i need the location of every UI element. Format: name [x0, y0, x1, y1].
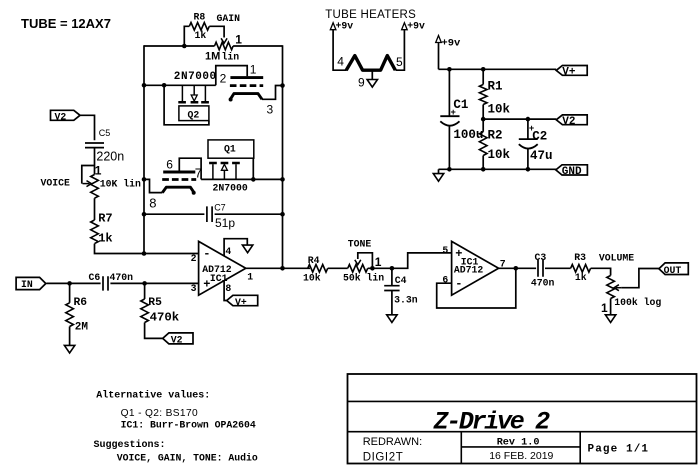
- label plus U1A: [203, 278, 210, 292]
- svg-text:R5: R5: [148, 297, 162, 309]
- potentiometer VOLUME: [607, 269, 659, 299]
- title block vertical 1: [460, 432, 462, 464]
- resistor R7: [91, 220, 99, 244]
- title block divider 1: [348, 400, 697, 402]
- label 220n: [96, 150, 124, 164]
- svg-text:TONE: TONE: [348, 239, 372, 250]
- label C5: [99, 128, 111, 138]
- text Rev 1.0: [497, 438, 540, 449]
- svg-text:1: 1: [95, 164, 102, 178]
- node junction R6 tap: [67, 281, 72, 286]
- svg-text:470k: 470k: [150, 311, 180, 325]
- label minus U1B: [455, 277, 462, 291]
- label plus C2: [529, 124, 534, 134]
- label 470n C6: [110, 272, 134, 283]
- svg-text:C4: C4: [395, 275, 407, 286]
- wire heater right: [396, 30, 405, 70]
- node junction lower bus right: [280, 177, 285, 182]
- svg-text:AD712: AD712: [454, 265, 484, 276]
- svg-text:50k lin: 50k lin: [343, 273, 384, 284]
- wire top rail segment: [144, 45, 215, 47]
- node junction TONE term1: [370, 266, 375, 271]
- svg-text:IN: IN: [21, 279, 33, 290]
- svg-text:1k: 1k: [98, 231, 112, 245]
- label Q1: [224, 144, 236, 155]
- svg-text:51p: 51p: [215, 216, 235, 230]
- label +9v supply: [441, 38, 461, 50]
- label 1k R3: [575, 272, 587, 283]
- label R4: [308, 255, 320, 266]
- label pin 4 U1A: [225, 246, 231, 257]
- label plus C1: [451, 108, 456, 118]
- svg-text:1k: 1k: [195, 30, 207, 41]
- power +9v arrow left: [330, 23, 336, 30]
- ground VOLUME: [605, 315, 615, 323]
- wire VOLUME to gnd: [610, 299, 612, 315]
- label 50k lin: [343, 273, 384, 284]
- svg-text:3: 3: [191, 283, 197, 294]
- wire pin4 to gnd: [224, 239, 247, 256]
- wire output U1A: [246, 267, 310, 269]
- wire top rail right segment: [233, 45, 282, 47]
- label IC1 U1A: [210, 273, 228, 284]
- label 100u: [453, 128, 483, 142]
- title block divider 2: [348, 431, 697, 433]
- label pin 1 U1A: [247, 272, 253, 283]
- text alternative values: [96, 390, 210, 402]
- svg-text:R3: R3: [574, 252, 586, 263]
- capacitor C6: [103, 276, 108, 290]
- flag V2 top: [51, 110, 81, 120]
- svg-text:3: 3: [267, 102, 274, 116]
- svg-text:1: 1: [247, 272, 253, 283]
- tube V1b plate lead: [179, 158, 201, 179]
- svg-text:7: 7: [195, 166, 202, 181]
- label GND rail: [562, 166, 582, 178]
- wire C7 left: [144, 213, 204, 215]
- label V+ rail: [562, 67, 576, 79]
- svg-text:2N7000: 2N7000: [174, 71, 217, 83]
- text suggestions: [94, 439, 166, 451]
- svg-text:470n: 470n: [531, 277, 555, 288]
- svg-text:1: 1: [235, 33, 242, 47]
- label V2 top: [55, 112, 67, 123]
- wire Q1 drain wrap: [252, 158, 254, 179]
- text REDRAWN: [363, 436, 422, 448]
- capacitor C2: [519, 119, 538, 169]
- ground C4: [387, 315, 397, 323]
- transistor Q2 bars: [178, 101, 209, 104]
- resistor R1: [479, 69, 487, 119]
- svg-text:5: 5: [396, 55, 403, 69]
- label R3: [574, 252, 586, 263]
- wire pin2: [144, 253, 199, 255]
- label pin 5 heater: [396, 55, 403, 69]
- svg-text:100u: 100u: [453, 128, 483, 142]
- label 100k log: [614, 297, 661, 308]
- svg-text:6: 6: [166, 157, 173, 171]
- svg-text:C7: C7: [214, 203, 226, 213]
- wire right bus: [282, 45, 284, 268]
- label pin 8 V1b: [149, 196, 156, 211]
- transistor Q1 arrow: [221, 164, 227, 170]
- resistor R2: [479, 119, 487, 169]
- wire pin8 to V+: [224, 281, 227, 301]
- label 47u: [530, 149, 553, 163]
- label AD712 U1A: [202, 264, 232, 275]
- svg-text:IC1: Burr-Brown OPA2604: IC1: Burr-Brown OPA2604: [121, 420, 256, 431]
- svg-text:1: 1: [250, 63, 257, 77]
- svg-text:8: 8: [225, 283, 231, 294]
- ground R6: [64, 345, 74, 353]
- label pin 2 U1A: [191, 253, 197, 264]
- svg-text:lin: lin: [222, 51, 240, 62]
- svg-text:3.3n: 3.3n: [394, 295, 418, 306]
- wire lower net: [201, 178, 282, 180]
- wire V2 to C5: [80, 115, 95, 140]
- ground supply: [433, 174, 443, 182]
- svg-text:TUBE = 12AX7: TUBE = 12AX7: [21, 16, 111, 31]
- svg-text:4: 4: [225, 246, 231, 257]
- label GAIN: [217, 13, 241, 24]
- text Page 1/1: [588, 443, 650, 455]
- wire C3 to R3: [545, 267, 571, 269]
- svg-text:OUT: OUT: [664, 265, 682, 276]
- node junction left bus lower: [142, 177, 147, 182]
- label pin 7 V1b: [195, 166, 202, 181]
- svg-text:REDRAWN:: REDRAWN:: [363, 436, 422, 448]
- tube V1a plate lead: [216, 66, 247, 86]
- label R8: [194, 12, 206, 23]
- tube V1a plate: [230, 76, 263, 79]
- resistor R5: [141, 283, 163, 338]
- op-amp U1A: [199, 241, 246, 295]
- label V2 rail: [562, 116, 575, 128]
- svg-text:V2: V2: [55, 112, 67, 123]
- svg-text:2M: 2M: [75, 322, 89, 334]
- label 10k R1: [488, 103, 511, 117]
- svg-text:-: -: [455, 277, 462, 291]
- label pin 3 V1a: [267, 102, 274, 116]
- flag OUT: [659, 263, 688, 275]
- svg-text:+9v: +9v: [336, 21, 354, 32]
- svg-text:TUBE HEATERS: TUBE HEATERS: [325, 9, 416, 21]
- label pin 7 U1B: [500, 259, 506, 270]
- label R1: [488, 80, 503, 94]
- label R5: [148, 297, 162, 309]
- text Z-Drive 2: [433, 408, 551, 437]
- tube V1b cathode: [162, 187, 195, 195]
- svg-text:100k log: 100k log: [614, 297, 661, 308]
- label AD712 U1B: [454, 265, 484, 276]
- label TONE: [348, 239, 372, 250]
- node junction cathode bus: [280, 83, 285, 88]
- svg-text:C3: C3: [535, 252, 547, 263]
- label R6: [74, 297, 88, 309]
- svg-text:Q1 - Q2: BS170: Q1 - Q2: BS170: [121, 408, 198, 419]
- label C1: [453, 98, 468, 112]
- label C2: [532, 130, 547, 144]
- svg-text:Suggestions:: Suggestions:: [94, 439, 166, 451]
- node junction left bus upper: [142, 83, 147, 88]
- label terminal 1 VOICE: [95, 164, 102, 178]
- wire TONE to riser: [368, 253, 452, 268]
- node junction C7 left: [142, 212, 147, 217]
- label OUT: [664, 265, 682, 276]
- svg-text:1: 1: [375, 255, 382, 269]
- node junction R2 bottom: [481, 167, 486, 172]
- capacitor C5: [85, 143, 104, 148]
- wire supply drop: [438, 43, 440, 70]
- label pin 4 heater: [337, 55, 344, 69]
- svg-text:10k: 10k: [488, 103, 511, 117]
- label +9v right: [407, 21, 425, 32]
- label pin 3 U1A: [191, 283, 197, 294]
- flag V2 rail: [556, 115, 587, 125]
- svg-text:10k: 10k: [303, 273, 321, 284]
- label pin 2 V1a: [220, 72, 227, 86]
- transistor Q2 arrow: [191, 95, 197, 101]
- capacitor C4: [384, 268, 399, 315]
- svg-text:GAIN: GAIN: [217, 13, 241, 24]
- svg-text:+9v: +9v: [407, 21, 425, 32]
- wire cathode jog lower: [144, 179, 162, 192]
- transistor Q1 bars: [209, 162, 240, 165]
- node junction C2 bottom: [526, 167, 531, 172]
- text DIGI2T: [363, 451, 404, 463]
- label R7: [98, 211, 112, 225]
- svg-text:R1: R1: [488, 80, 503, 94]
- node junction C2 top: [526, 117, 531, 122]
- tube V1a grid: [230, 84, 263, 87]
- wire grid bus upper: [144, 84, 216, 86]
- node junction C4 tap: [390, 266, 395, 271]
- flag V2 R5: [163, 333, 193, 344]
- flag V+ pin8: [227, 295, 258, 305]
- flag V+ rail: [556, 66, 587, 76]
- svg-text:Q1: Q1: [224, 144, 236, 155]
- transistor Q2 leads: [182, 85, 205, 101]
- svg-text:16 FEB. 2019: 16 FEB. 2019: [489, 450, 553, 462]
- flag IN: [16, 277, 46, 289]
- svg-text:9: 9: [358, 76, 365, 90]
- wire pin6 feedback: [437, 268, 516, 308]
- svg-text:2: 2: [191, 253, 197, 264]
- label IC1 U1B: [461, 257, 479, 268]
- label 1M: [205, 50, 220, 62]
- svg-text:220n: 220n: [96, 150, 124, 164]
- wire Q2 source wrap: [164, 85, 209, 125]
- label C7: [214, 203, 226, 213]
- wire V+ rail: [439, 68, 557, 70]
- svg-text:1M: 1M: [205, 50, 220, 62]
- node junction R5 tap: [142, 281, 147, 286]
- label pin 8 U1A: [225, 283, 231, 294]
- svg-text:8: 8: [149, 196, 156, 211]
- svg-text:VOLUME: VOLUME: [599, 252, 634, 263]
- potentiometer VOICE: [82, 166, 99, 199]
- transistor Q1 box: [208, 140, 254, 158]
- label V2 R5: [171, 335, 183, 346]
- label 3.3n: [394, 295, 418, 306]
- capacitor C7: [207, 206, 212, 222]
- svg-text:47u: 47u: [530, 149, 553, 163]
- wire output U1B: [499, 267, 536, 269]
- power +9v arrow supply: [436, 36, 442, 43]
- heater filament: [346, 56, 395, 71]
- power +9v arrow right: [402, 23, 408, 30]
- potentiometer TONE: [348, 253, 373, 272]
- node junction U1B out: [514, 266, 519, 271]
- node junction V2 rail: [481, 117, 486, 122]
- svg-text:V+: V+: [235, 297, 247, 308]
- svg-text:R2: R2: [488, 129, 503, 143]
- svg-text:2N7000: 2N7000: [213, 182, 248, 193]
- label Q2: [188, 110, 200, 121]
- label 470n C3: [531, 277, 555, 288]
- label pin 5 U1B: [442, 245, 448, 256]
- node junction pin2: [142, 251, 147, 256]
- svg-text:1: 1: [601, 301, 608, 315]
- wire C5 to pot: [94, 148, 96, 175]
- svg-text:470n: 470n: [110, 272, 134, 283]
- svg-text:R6: R6: [74, 297, 88, 309]
- title block rev divider: [461, 446, 580, 448]
- label C3: [535, 252, 547, 263]
- potentiometer GAIN 1M: [215, 42, 234, 50]
- resistor R8: [184, 23, 227, 47]
- text TUBE = 12AX7: [21, 16, 111, 31]
- label 10k R2: [488, 148, 511, 162]
- label 2N7000 Q2: [174, 71, 217, 83]
- node junction Q1 wrap: [251, 177, 256, 182]
- label +9v left: [336, 21, 354, 32]
- transistor Q1 leads: [213, 164, 236, 179]
- label 1k R7: [98, 231, 112, 245]
- label minus U1A: [203, 247, 210, 261]
- node junction C7 right: [280, 212, 285, 217]
- text voice gain tone audio: [117, 452, 258, 463]
- wire R4 to TONE: [328, 267, 348, 269]
- svg-text:Z-Drive 2: Z-Drive 2: [433, 408, 551, 437]
- svg-text:DIGI2T: DIGI2T: [363, 451, 404, 463]
- capacitor C1: [440, 69, 459, 169]
- svg-text:C6: C6: [89, 272, 101, 283]
- label pin 1 V1a: [250, 63, 257, 77]
- wire V1a cathode to bus: [262, 86, 283, 100]
- svg-text:VOICE: VOICE: [41, 178, 71, 189]
- svg-text:V+: V+: [562, 67, 576, 79]
- svg-text:Rev 1.0: Rev 1.0: [497, 438, 540, 449]
- text TUBE HEATERS: [325, 9, 416, 21]
- label terminal 1 TONE: [375, 255, 382, 269]
- label 2N7000 Q1: [213, 182, 248, 193]
- label V+ pin8: [235, 297, 247, 308]
- label 470k R5: [150, 311, 180, 325]
- svg-text:10K lin: 10K lin: [100, 179, 141, 190]
- node junction feedback out: [280, 266, 285, 271]
- node junction C1 bottom: [447, 167, 452, 172]
- flag GND rail: [556, 165, 588, 175]
- svg-text:R7: R7: [98, 211, 112, 225]
- label C6: [89, 272, 101, 283]
- label lin GAIN: [222, 51, 240, 62]
- node junction R8 tap: [182, 44, 187, 49]
- label 10k R4: [303, 273, 321, 284]
- svg-text:1k: 1k: [575, 272, 587, 283]
- text Q1 Q2 BS170: [121, 408, 198, 419]
- label terminal 1 GAIN: [235, 33, 242, 47]
- svg-text:Alternative values:: Alternative values:: [96, 390, 210, 402]
- tube V1b grid: [162, 178, 196, 181]
- wire C7 right: [215, 213, 283, 215]
- wire gnd stub supply: [438, 169, 440, 173]
- op-amp U1B: [452, 241, 499, 295]
- svg-text:Q2: Q2: [188, 110, 200, 121]
- transistor Q2 box: [179, 106, 209, 121]
- text IC1 OPA2604: [121, 420, 256, 431]
- wire GND rail: [439, 168, 557, 170]
- label 10K lin VOICE: [100, 179, 141, 190]
- node junction C1 top: [447, 67, 452, 72]
- label pin 9 heater: [358, 76, 365, 90]
- label C4: [395, 275, 407, 286]
- ground heater pin9: [367, 80, 377, 88]
- capacitor C3: [538, 260, 543, 277]
- label IN: [21, 279, 33, 290]
- svg-text:VOICE, GAIN, TONE: Audio: VOICE, GAIN, TONE: Audio: [117, 452, 258, 463]
- resistor R4: [308, 265, 328, 273]
- ground pin4: [242, 245, 252, 253]
- wire heater pin9: [371, 70, 373, 79]
- svg-text:V2: V2: [171, 335, 183, 346]
- svg-text:+9v: +9v: [441, 38, 461, 50]
- wire left bus: [143, 45, 145, 253]
- svg-text:C1: C1: [453, 98, 468, 112]
- svg-text:V2: V2: [562, 116, 575, 128]
- label pin 6 V1b: [166, 157, 173, 171]
- label terminal 1 VOLUME: [601, 301, 608, 315]
- text 16 FEB 2019: [489, 450, 553, 462]
- resistor R6: [66, 283, 74, 345]
- tube V1b plate: [163, 171, 195, 174]
- wire C6 to pin3: [110, 282, 198, 284]
- wire R3 to VOLUME: [591, 268, 611, 275]
- node junction R1 top: [481, 67, 486, 72]
- title block frame: [348, 374, 697, 464]
- svg-text:2: 2: [220, 72, 227, 86]
- resistor R3: [571, 265, 591, 273]
- label VOICE: [41, 178, 71, 189]
- node junction Q2 tap: [162, 83, 167, 88]
- label pin 6 U1B: [442, 275, 448, 286]
- wire IN to C6: [46, 282, 100, 284]
- svg-text:-: -: [203, 247, 210, 261]
- label 51p: [215, 216, 235, 230]
- wire heater left: [333, 30, 347, 70]
- svg-text:R4: R4: [308, 255, 320, 266]
- label 1k R8: [195, 30, 207, 41]
- wire V2 rail: [483, 118, 556, 120]
- tube V1a cathode: [229, 94, 262, 102]
- label VOLUME: [599, 252, 634, 263]
- svg-text:GND: GND: [562, 166, 582, 178]
- wire R7 to pin2: [95, 244, 145, 254]
- svg-text:4: 4: [337, 55, 344, 69]
- svg-text:Page 1/1: Page 1/1: [588, 443, 650, 455]
- label R2: [488, 129, 503, 143]
- label plus U1B: [455, 247, 462, 261]
